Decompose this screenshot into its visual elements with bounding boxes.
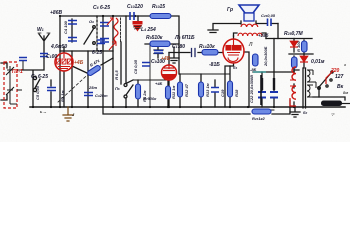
svg-text:R 100: R 100 — [296, 41, 301, 52]
svg-text:П6: П6 — [115, 86, 120, 91]
svg-text:С4 100: С4 100 — [63, 20, 68, 34]
svg-text:С240,05: С240,05 — [261, 13, 276, 18]
svg-text:б2: б2 — [303, 110, 307, 115]
svg-text:+4Б: +4Б — [74, 60, 84, 66]
svg-text:8м: 8м — [343, 90, 348, 95]
svg-text:П2-1: П2-1 — [12, 69, 23, 75]
svg-text:R250,7М: R250,7М — [284, 31, 303, 37]
svg-text:Гр: Гр — [227, 7, 233, 13]
svg-text:6-25: 6-25 — [92, 50, 102, 56]
svg-text:R6 2м: R6 2м — [142, 91, 147, 102]
svg-text:R1015: R1015 — [152, 4, 165, 10]
svg-text:С10120: С10120 — [127, 4, 143, 10]
svg-text:220: 220 — [330, 68, 340, 74]
svg-text:127: 127 — [335, 74, 344, 80]
svg-text:Л3 6П1Б: Л3 6П1Б — [174, 35, 195, 41]
svg-text:б4: б4 — [233, 65, 237, 70]
svg-text:С425т: С425т — [95, 93, 108, 98]
svg-text:R13 1м: R13 1м — [205, 83, 210, 97]
svg-text:С8 0,05: С8 0,05 — [133, 59, 138, 74]
svg-text:L4 254: L4 254 — [141, 27, 156, 33]
svg-text:0,01м: 0,01м — [311, 59, 325, 65]
svg-text:ь --: ь -- — [40, 109, 47, 114]
svg-text:R11 1м: R11 1м — [171, 86, 176, 99]
svg-text:R18: R18 — [234, 89, 239, 97]
svg-text:R241к2: R241к2 — [252, 116, 265, 121]
svg-text:+4Б: +4Б — [161, 56, 171, 62]
svg-text:Л: Л — [248, 42, 253, 48]
svg-text:С1780: С1780 — [172, 44, 185, 50]
svg-text:R1410к: R1410к — [199, 44, 215, 50]
svg-text:+25б: +25б — [258, 32, 269, 38]
svg-text:С22 20,0х300В: С22 20,0х300В — [249, 75, 254, 103]
svg-text:-81Б: -81Б — [209, 62, 220, 68]
svg-text:R12 47: R12 47 — [184, 83, 189, 97]
svg-text:4,6м50: 4,6м50 — [50, 44, 67, 50]
svg-text:R2 1м: R2 1м — [60, 91, 65, 102]
svg-text:а: а — [344, 63, 346, 67]
svg-text:25т: 25т — [88, 85, 97, 90]
svg-text:С19: С19 — [220, 89, 225, 97]
svg-text:R9510к: R9510к — [146, 35, 163, 41]
svg-text:С100: С100 — [46, 54, 57, 60]
svg-text:+4Б: +4Б — [155, 81, 163, 86]
svg-text:С5 0,05: С5 0,05 — [35, 85, 40, 100]
svg-text:-8Б: -8Б — [250, 67, 257, 72]
svg-text:20,0х300Б: 20,0х300Б — [263, 46, 268, 67]
svg-text:Я 0,5: Я 0,5 — [114, 70, 119, 81]
svg-text:Об: Об — [89, 19, 94, 24]
svg-text:С1 6-25: С1 6-25 — [31, 74, 48, 80]
svg-text:'7': '7' — [331, 113, 335, 117]
svg-text:+86В: +86В — [50, 10, 62, 16]
svg-text:С6 6-25: С6 6-25 — [93, 5, 110, 11]
